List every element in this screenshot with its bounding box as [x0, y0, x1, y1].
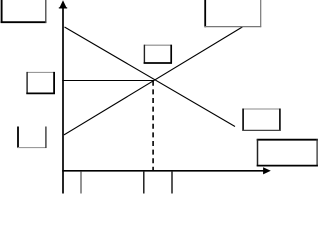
x-axis arrowhead	[263, 167, 271, 174]
label box right-middle	[242, 109, 280, 132]
below-axis divider at x=172	[171, 172, 173, 194]
equilibrium price horizontal line	[62, 80, 153, 82]
label box left-middle	[26, 72, 55, 94]
label box top-right (open top)	[205, 0, 262, 27]
supply curve	[64, 27, 243, 135]
y-axis arrowhead flange	[59, 7, 67, 9]
label box left-lower (open top)	[17, 127, 46, 149]
label box bottom-right	[257, 139, 318, 166]
below-axis divider at x=144	[143, 172, 145, 194]
label box center (above equilibrium)	[144, 45, 172, 64]
y-axis arrowhead	[59, 0, 66, 8]
y-axis (price axis) shaft	[62, 4, 64, 194]
x-axis (quantity axis) shaft	[62, 170, 265, 172]
demand curve	[65, 27, 236, 127]
below-axis divider at x=81	[80, 172, 82, 194]
label box top-left (open top)	[1, 0, 47, 23]
equilibrium quantity dashed vertical line	[152, 81, 154, 170]
